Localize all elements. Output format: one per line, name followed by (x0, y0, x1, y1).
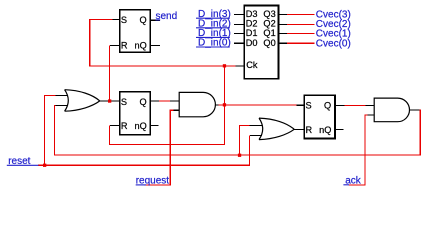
U2 pin Ck stub (235, 65, 244, 67)
svg-text:S: S (306, 101, 312, 111)
wire net ack (U8 input to ack label) (349, 115, 368, 185)
junction dot AND1 out (223, 103, 226, 106)
U7 pin nQ stub (335, 129, 344, 131)
flip-flop U1 (send SR latch) (120, 10, 151, 52)
U6 output stub to U7.R (294, 129, 304, 131)
label D_in(2) (196, 19, 231, 30)
wire Q3 to Cvec(3) (287, 13, 315, 15)
svg-text:Q: Q (139, 15, 146, 25)
flip-flop U5 (request SR latch) (120, 92, 151, 135)
svg-text:Q2: Q2 (263, 19, 275, 29)
svg-text:S: S (121, 15, 127, 25)
label send (156, 11, 178, 22)
svg-text:Cvec(0): Cvec(0) (316, 38, 351, 49)
U4 input stubs (170, 100, 179, 102)
wire U5.Q to U4 input (159, 100, 170, 102)
U2 pin Q1 stub (279, 33, 290, 35)
U2 pin D1 stub (234, 33, 244, 35)
U2 pin D3 stub (234, 13, 244, 15)
svg-text:Q0: Q0 (263, 38, 275, 48)
svg-text:Q3: Q3 (263, 9, 275, 19)
flip-flop U7 (ack SR latch) (304, 95, 335, 138)
svg-text:nQ: nQ (135, 41, 147, 51)
wire net reset rail (to U6 lower input) (38, 135, 250, 165)
svg-text:R: R (121, 41, 128, 51)
svg-text:Ck: Ck (246, 60, 258, 70)
U1 pin S stub (112, 19, 120, 21)
U8 input stubs (365, 104, 374, 106)
label reset (7, 156, 39, 167)
wire net AND1 out (to U1.S rail, U5.R, U7.S) (110, 66, 297, 144)
svg-text:D2: D2 (246, 19, 258, 29)
U2 pin labels (246, 9, 276, 70)
U3 output stub to U5.S (100, 100, 120, 102)
label request (136, 176, 170, 187)
svg-text:D0: D0 (246, 38, 258, 48)
svg-text:R: R (121, 121, 128, 131)
U3 input stubs (55, 94, 67, 96)
svg-text:Q: Q (324, 101, 331, 111)
U5 pin Q stub (150, 100, 159, 102)
U1 pin labels (121, 15, 147, 51)
wire net AND2 out loop (to OR1 lower input) (55, 105, 421, 155)
U1 pin nQ stub (150, 44, 160, 46)
junction dot on Ck rail (223, 64, 226, 67)
U6 input stubs (250, 125, 262, 127)
wire Q2 to Cvec(2) (287, 23, 315, 25)
junction dot on AND2 loop (238, 154, 241, 157)
label D_in(0) (196, 38, 231, 49)
svg-text:nQ: nQ (319, 125, 331, 135)
wire U7.Q to U8 input (345, 104, 366, 106)
svg-text:nQ: nQ (135, 121, 147, 131)
U2 pin Q3 stub (279, 13, 290, 15)
svg-text:Q1: Q1 (263, 28, 275, 38)
U1 pin Q stub (150, 19, 160, 21)
U7 pin labels (306, 101, 332, 135)
svg-text:Q: Q (139, 97, 146, 107)
U4 output stub (215, 104, 218, 106)
wire U1.R drop to node S2 (109, 45, 111, 101)
wire Q0 to Cvec(0) (287, 42, 315, 44)
label D_in(3) (196, 9, 231, 20)
or-gate U6 (259, 118, 294, 140)
junction dot on reset rail (43, 164, 46, 167)
svg-text:D1: D1 (246, 28, 258, 38)
U5 pin labels (121, 97, 147, 131)
U7 pin Q stub (335, 104, 345, 106)
wire reset to U3 upper input (45, 95, 56, 165)
wire net request (U4 input to request label) (144, 110, 173, 185)
U1 pin R stub (110, 44, 120, 46)
U2 pin Q2 stub (279, 23, 290, 25)
svg-text:S: S (121, 97, 127, 107)
U7 pin S stub (297, 104, 305, 106)
or-gate U3 (65, 90, 100, 112)
U2 pin D0 stub (234, 42, 244, 44)
svg-text:R: R (306, 125, 313, 135)
U5 pin nQ stub (150, 124, 158, 126)
wire branch to U6 upper input (240, 126, 250, 156)
U8 output stub (410, 109, 420, 111)
wire Q1 to Cvec(1) (287, 33, 315, 35)
U5 pin R stub (110, 124, 120, 126)
U2 pin Q0 stub (279, 42, 290, 44)
label ack (343, 176, 361, 187)
U2 pin D2 stub (234, 23, 244, 25)
svg-text:D3: D3 (246, 9, 258, 19)
and-gate U8 (374, 98, 409, 122)
wire net send.S / Ck rail (90, 20, 236, 66)
register U2 (4-bit) (244, 6, 278, 79)
junction dot at FF2.S node (108, 99, 111, 102)
label D_in(1) (196, 28, 231, 39)
and-gate U4 (179, 92, 215, 116)
